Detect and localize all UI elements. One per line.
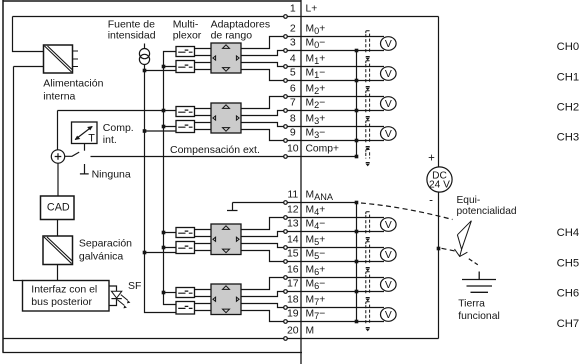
svg-text:Tierra: Tierra <box>458 298 485 309</box>
junction bus lower t13 <box>355 230 359 234</box>
wire group2 mux feeds <box>145 127 177 132</box>
junction V0 group2 <box>143 129 147 133</box>
module frame left border <box>2 0 4 353</box>
bus V0 (current source rail) <box>145 71 177 313</box>
svg-text:6: 6 <box>290 83 296 95</box>
mux switch S1 <box>176 47 195 57</box>
wire M bottom (terminal 20 to right rail) <box>3 338 439 340</box>
range adapter U4 group3 <box>211 224 241 255</box>
wire terminal 8 M3+ <box>241 123 384 127</box>
junction V1 group2 b <box>162 125 166 129</box>
selector wiper <box>65 152 80 156</box>
voltage source V ch1 <box>381 67 397 81</box>
wire CAD to isolation <box>57 220 59 237</box>
LED SF light arrows <box>117 295 128 306</box>
junction V1 group2 a <box>162 109 166 113</box>
svg-text:V: V <box>385 280 392 291</box>
junction bus upper t7 <box>355 109 359 113</box>
shield cable ch1 <box>366 61 370 63</box>
svg-text:M4+: M4+ <box>306 205 326 218</box>
mux switch S7 <box>176 288 195 298</box>
equipotential dashed link from MANA <box>361 203 453 220</box>
svg-text:V: V <box>385 129 392 140</box>
labels V in sources <box>385 39 392 321</box>
bus MANA upper (minus terminals CH0-CH3) <box>356 51 358 157</box>
terminal contact circles <box>284 15 288 341</box>
power supply U1 (Alimentación interna) <box>44 45 79 73</box>
junction bus upper t3 <box>355 49 359 53</box>
svg-text:potencialidad: potencialidad <box>457 206 517 217</box>
svg-text:1: 1 <box>290 3 296 15</box>
voltage source V ch2 <box>381 97 397 111</box>
wire terminal 2 M0+ <box>241 37 384 49</box>
bus V1 (mux common rail) <box>164 52 177 305</box>
shield cable ch6 <box>366 272 370 274</box>
terminal labels <box>306 4 339 337</box>
junction V1 group4 <box>162 291 166 295</box>
svg-text:V: V <box>385 39 392 50</box>
junction V0 group1 <box>143 69 147 73</box>
junction bus lower t17 <box>355 290 359 294</box>
junction V1 group3 a <box>162 231 166 235</box>
svg-text:M4−: M4− <box>306 219 326 232</box>
shield cable comp <box>366 150 370 152</box>
shield cable ch2 <box>366 91 370 93</box>
svg-text:CH1: CH1 <box>557 71 580 83</box>
svg-text:14: 14 <box>287 234 299 246</box>
range adapter U2 group1 <box>211 43 241 73</box>
svg-text:Ninguna: Ninguna <box>92 168 131 180</box>
wire comp box bottom pin <box>84 144 86 151</box>
wire group4 mux feeds <box>164 292 177 294</box>
mux switch S3 <box>176 107 195 117</box>
wire terminal 7 M2- <box>241 111 384 116</box>
svg-text:3: 3 <box>290 37 296 49</box>
svg-text:8: 8 <box>290 113 296 125</box>
svg-text:Interfaz con el: Interfaz con el <box>31 283 97 295</box>
mux switch S6 <box>176 242 195 254</box>
wire group2 mux feed from summer <box>58 110 177 112</box>
svg-text:CH6: CH6 <box>557 288 580 300</box>
svg-text:CH4: CH4 <box>557 227 580 239</box>
equipotential bonding arrow symbol <box>457 221 471 250</box>
svg-text:M0+: M0+ <box>306 24 326 37</box>
svg-text:SF: SF <box>128 280 141 292</box>
wire group1 mux feeds <box>145 67 177 71</box>
svg-text:M1+: M1+ <box>306 54 326 67</box>
node MANA dead-end tick <box>227 203 238 211</box>
voltage source V ch3 <box>381 127 397 141</box>
svg-text:Alimentación: Alimentación <box>43 78 103 90</box>
wire L+ drop to power supply <box>13 17 44 52</box>
wire summer riser <box>57 111 59 150</box>
earth symbol Tierra funcional <box>462 272 496 293</box>
galvanic isolation box <box>43 236 73 265</box>
svg-text:12: 12 <box>287 204 299 216</box>
svg-text:M7+: M7+ <box>306 295 326 308</box>
svg-text:M7−: M7− <box>306 309 326 322</box>
junction right rail equipotential <box>437 247 441 251</box>
wire terminal 3 M0- <box>241 51 384 56</box>
svg-text:19: 19 <box>287 308 299 320</box>
junction V1 group3 b <box>162 246 166 250</box>
svg-text:V: V <box>385 99 392 110</box>
mux switch S4 <box>176 121 195 133</box>
svg-text:18: 18 <box>287 294 299 306</box>
current source (Fuente de intensidad) <box>144 44 146 49</box>
svg-text:20: 20 <box>287 325 299 337</box>
junction bus upper t9 <box>355 139 359 143</box>
svg-text:CH5: CH5 <box>557 257 580 269</box>
voltage source V ch6 <box>381 278 397 292</box>
shield cable ch3 <box>366 121 370 123</box>
svg-text:-: - <box>429 195 433 207</box>
svg-text:galvánica: galvánica <box>79 251 124 263</box>
voltage source V ch7 <box>381 308 397 322</box>
svg-text:M0−: M0− <box>306 38 326 51</box>
mux switch S5 <box>176 228 195 238</box>
shield cable ch0 <box>366 31 370 33</box>
wire terminal 12 M4+ <box>241 218 384 230</box>
junction bus upper t5 <box>355 79 359 83</box>
wire L+ top (terminal 1 to right rail) <box>13 16 439 18</box>
svg-text:M5−: M5− <box>306 249 326 262</box>
contact Ninguna <box>80 164 89 174</box>
voltage source V ch5 <box>381 248 397 262</box>
svg-text:M2−: M2− <box>306 98 326 111</box>
svg-text:15: 15 <box>287 248 299 260</box>
wire terminal 15 M5- <box>241 251 384 262</box>
wire isolation to interface <box>57 265 59 281</box>
svg-text:CAD: CAD <box>47 202 70 214</box>
wire right rail bottom <box>438 192 440 338</box>
wires mux to adapter group1 <box>195 49 212 70</box>
LED SF diode <box>111 291 121 298</box>
LED SF branch <box>110 286 117 306</box>
CAD box (A/D converter) <box>41 196 75 220</box>
range adapter U3 group2 <box>211 103 241 133</box>
svg-text:Comp.: Comp. <box>103 122 134 134</box>
mux switch S8 <box>176 302 195 315</box>
junction bus lower t19 <box>355 320 359 324</box>
svg-text:int.: int. <box>103 134 117 146</box>
wires mux to adapter group3 <box>195 230 212 251</box>
svg-text:intensidad: intensidad <box>108 29 156 41</box>
svg-text:24 V: 24 V <box>429 180 450 191</box>
wire right rail top <box>438 17 440 168</box>
svg-text:M6−: M6− <box>306 279 326 292</box>
svg-text:Separación: Separación <box>79 238 132 250</box>
svg-text:Comp+: Comp+ <box>306 144 339 155</box>
wire terminal 13 M4- <box>241 232 384 237</box>
svg-text:+: + <box>428 152 435 164</box>
dashed link to earth <box>469 259 478 265</box>
svg-text:Equi-: Equi- <box>457 195 481 206</box>
svg-text:13: 13 <box>287 218 299 230</box>
bus MANA lower (minus terminals CH4-CH7) <box>356 203 358 322</box>
svg-text:10: 10 <box>287 143 299 155</box>
summer node + <box>51 150 64 163</box>
module frame bottom border <box>3 352 303 354</box>
svg-text:17: 17 <box>287 278 299 290</box>
junction bus lower t11 <box>355 201 359 205</box>
range adapter U5 group4 <box>211 284 241 315</box>
wire terminal 18 M7+ <box>241 304 384 308</box>
wire terminal 16 M6+ <box>241 278 384 290</box>
svg-text:M3+: M3+ <box>306 114 326 127</box>
svg-text:funcional: funcional <box>458 311 500 322</box>
junction V0 group3 <box>143 251 147 255</box>
svg-text:V: V <box>385 250 392 261</box>
svg-text:4: 4 <box>290 53 296 65</box>
terminal numbers <box>287 3 299 337</box>
wire terminal 10 Comp+ (Compensación ext.) <box>91 156 357 158</box>
svg-text:M2+: M2+ <box>306 84 326 97</box>
wire M return / backplane feed <box>14 67 44 281</box>
terminal strip divider <box>300 0 302 364</box>
wire terminal 11 MANA <box>233 202 357 204</box>
svg-text:M6+: M6+ <box>306 265 326 278</box>
svg-text:M1−: M1− <box>306 68 326 81</box>
wire terminal 19 M7- <box>241 311 384 322</box>
svg-text:plexor: plexor <box>173 29 202 41</box>
svg-text:interna: interna <box>43 90 75 102</box>
shield cable ch5 <box>366 242 370 244</box>
svg-text:7: 7 <box>290 97 296 109</box>
wires mux to adapter group2 <box>195 109 212 130</box>
wire terminal 14 M5+ <box>241 244 384 248</box>
svg-text:11: 11 <box>287 189 298 201</box>
svg-text:16: 16 <box>287 264 299 276</box>
junction bus lower t15 <box>355 260 359 264</box>
wire summer to CAD <box>57 163 59 196</box>
svg-text:M5+: M5+ <box>306 235 326 248</box>
svg-text:M3−: M3− <box>306 128 326 141</box>
wire terminal 17 M6- <box>241 292 384 297</box>
wire terminal 5 M1- <box>241 70 384 81</box>
svg-text:9: 9 <box>290 127 296 139</box>
svg-text:V: V <box>385 220 392 231</box>
svg-text:de rango: de rango <box>211 29 253 41</box>
wires mux to adapter group4 <box>195 290 212 311</box>
module frame top border <box>3 0 302 2</box>
junction V1 group1 <box>162 65 166 69</box>
wire terminal 9 M3- <box>241 130 384 141</box>
svg-text:L+: L+ <box>306 4 318 15</box>
svg-text:V: V <box>385 310 392 321</box>
svg-text:M: M <box>306 326 315 337</box>
voltage source V ch4 <box>381 218 397 232</box>
svg-text:MANA: MANA <box>306 190 334 203</box>
shield cable ch4 <box>366 212 370 214</box>
svg-text:bus posterior: bus posterior <box>31 296 92 308</box>
svg-text:5: 5 <box>290 67 296 79</box>
svg-text:CH0: CH0 <box>557 41 580 53</box>
equipotential dashed link from rail <box>442 248 456 251</box>
wire terminal 6 M2+ <box>241 97 384 109</box>
wire terminal 4 M1+ <box>241 63 384 67</box>
svg-text:Compensación ext.: Compensación ext. <box>170 144 260 156</box>
svg-text:CH7: CH7 <box>557 318 580 330</box>
compensation box Comp. int. <box>72 122 98 144</box>
svg-text:2: 2 <box>290 23 296 35</box>
svg-text:T: T <box>88 132 95 144</box>
backplane interface box <box>23 281 110 312</box>
mux switch S2 <box>176 61 195 73</box>
svg-text:V: V <box>385 69 392 80</box>
svg-text:CH3: CH3 <box>557 131 580 143</box>
DC 24V source <box>427 167 452 192</box>
svg-text:CH2: CH2 <box>557 101 580 113</box>
shield cable ch7 <box>366 302 370 304</box>
wire group3 mux feeds <box>145 233 177 253</box>
junction bus upper t10 <box>355 155 359 159</box>
voltage source V ch0 <box>381 37 397 51</box>
